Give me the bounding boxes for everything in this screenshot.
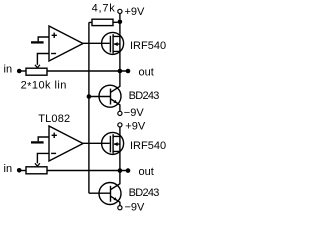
ground GND1 at U1A non-inverting input xyxy=(31,37,49,42)
junction dot: out2 node xyxy=(118,168,123,173)
MOSFET Q1 IRF540 xyxy=(102,32,124,54)
-9V supply terminal (upper) xyxy=(118,111,122,115)
transistor Q2 BD243 (upper) xyxy=(99,71,121,111)
svg-text:TL082: TL082 xyxy=(38,113,70,125)
svg-text:+9V: +9V xyxy=(125,6,146,18)
input terminal dot in2 xyxy=(17,168,22,173)
transistor Q4 BD243 (lower) xyxy=(99,171,121,206)
svg-text:in: in xyxy=(4,63,13,75)
wire: in1 node to potentiometer P1 xyxy=(21,70,26,72)
junction dot: out1 node xyxy=(118,69,123,74)
svg-text:BD243: BD243 xyxy=(129,187,160,199)
input terminal dot in1 xyxy=(17,69,22,74)
op-amp U1A (1/2 TL082) xyxy=(49,26,83,61)
svg-text:−9V: −9V xyxy=(125,202,146,214)
wire: P2 right terminal to out2 node xyxy=(47,170,128,172)
op-amp U1B (1/2 TL082) xyxy=(49,126,83,161)
svg-text:4,7k: 4,7k xyxy=(92,3,116,15)
wire: Q1 drain-source vertical (drain to +9V node, source to out1) xyxy=(119,22,121,71)
wire: op-amp U1A output to Q1 gate xyxy=(83,42,110,44)
wire: U1A inverting input to P1 wiper (feedback) xyxy=(35,54,49,68)
-9V supply terminal (lower) xyxy=(118,206,122,210)
wire: Q3 drain-source vertical (+9V to out2) xyxy=(119,127,121,171)
svg-text:out: out xyxy=(139,66,154,78)
node dot: resistor / +9V / Q1 drain xyxy=(118,19,123,24)
resistor 4,7k xyxy=(89,19,118,25)
ground GND2 at U1B non-inverting input xyxy=(31,137,49,142)
output terminal dot out2 xyxy=(126,168,131,173)
potentiometer P1 xyxy=(26,68,47,75)
potentiometer P2 xyxy=(26,167,47,174)
svg-text:−9V: −9V xyxy=(124,107,145,119)
output terminal dot out1 xyxy=(126,69,131,74)
wire: +9V terminal stem xyxy=(119,14,121,20)
wire: base rail from 4,7k resistor down to BD243 bases xyxy=(88,22,90,193)
svg-text:out: out xyxy=(139,166,154,178)
wire: op-amp U1B output to Q3 gate xyxy=(83,142,110,144)
svg-text:IRF540: IRF540 xyxy=(130,40,166,52)
wire: in2 node to potentiometer P2 xyxy=(21,170,26,172)
wire: rail to Q2 base xyxy=(89,96,111,98)
junction dot: rail to Q2 base xyxy=(87,94,92,99)
svg-text:BD243: BD243 xyxy=(129,90,160,102)
MOSFET Q3 IRF540 xyxy=(102,132,124,154)
+9V supply terminal (lower) xyxy=(118,123,122,127)
svg-text:+9V: +9V xyxy=(125,121,146,133)
wire: rail corner to Q4 base xyxy=(89,192,111,194)
+9V supply terminal (top) xyxy=(118,9,122,13)
wire: P1 right terminal to out1 node xyxy=(47,70,128,72)
wire: U1B inverting input to P2 wiper (feedback) xyxy=(35,153,49,166)
svg-text:IRF540: IRF540 xyxy=(130,140,166,152)
svg-text:2*10k lin: 2*10k lin xyxy=(21,79,67,92)
svg-text:in: in xyxy=(4,163,13,175)
